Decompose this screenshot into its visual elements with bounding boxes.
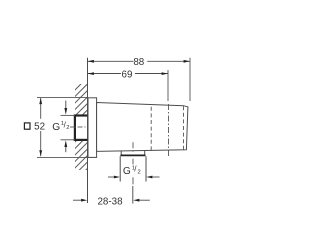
dimension 52 bottom extension line	[37, 156, 97, 158]
fitting bottom extension line	[61, 139, 76, 141]
fitting lower arrow	[64, 140, 67, 152]
svg-text:52: 52	[34, 122, 45, 133]
svg-text:28-38: 28-38	[97, 196, 123, 207]
escutcheon plate	[88, 98, 97, 158]
dimension 88 arrows	[88, 60, 190, 63]
svg-text:G: G	[52, 122, 60, 133]
label G 1/2 (outlet)	[123, 165, 141, 177]
svg-text:88: 88	[133, 57, 144, 68]
dimension 69 arrows	[88, 72, 168, 75]
label G 1/2 (wall fitting)	[52, 120, 69, 133]
dimension 52 top extension line	[37, 96, 88, 98]
svg-text:69: 69	[122, 69, 133, 80]
outlet nut thick bottom	[120, 154, 145, 156]
outlet nut	[121, 151, 145, 156]
wall hatching (lower section)	[70, 122, 95, 186]
dimension 28-38 right arrow	[133, 199, 150, 202]
svg-text:2: 2	[138, 170, 141, 176]
wall face line / extension line	[87, 58, 89, 203]
dimension 28-38 left arrow	[73, 199, 87, 202]
body center line	[168, 104, 170, 156]
square symbol	[24, 123, 30, 129]
dimension 52 arrows	[39, 98, 42, 156]
body outline	[97, 103, 188, 152]
fitting top extension line	[61, 114, 76, 116]
hidden dashed line 1	[150, 107, 152, 151]
dimension 69 line	[88, 73, 169, 75]
dimension 52 line	[40, 98, 42, 119]
svg-text:G: G	[123, 166, 131, 177]
outlet stub side lines	[120, 156, 146, 181]
svg-text:2: 2	[66, 125, 69, 131]
outlet center line	[132, 142, 134, 184]
hidden dashed line 2	[183, 106, 185, 150]
outlet G1/2 left arrow	[108, 176, 120, 179]
dimension 88 extension line	[189, 58, 191, 101]
outlet G1/2 right arrow	[146, 176, 159, 179]
dimension 88 line	[88, 60, 191, 62]
wall hatching (upper section)	[70, 70, 95, 128]
in-wall fitting body	[74, 115, 88, 142]
outlet center line extension	[132, 186, 134, 204]
dimension 69 extension line	[167, 70, 169, 101]
fitting center line	[70, 126, 93, 128]
fitting upper arrow	[64, 101, 67, 115]
